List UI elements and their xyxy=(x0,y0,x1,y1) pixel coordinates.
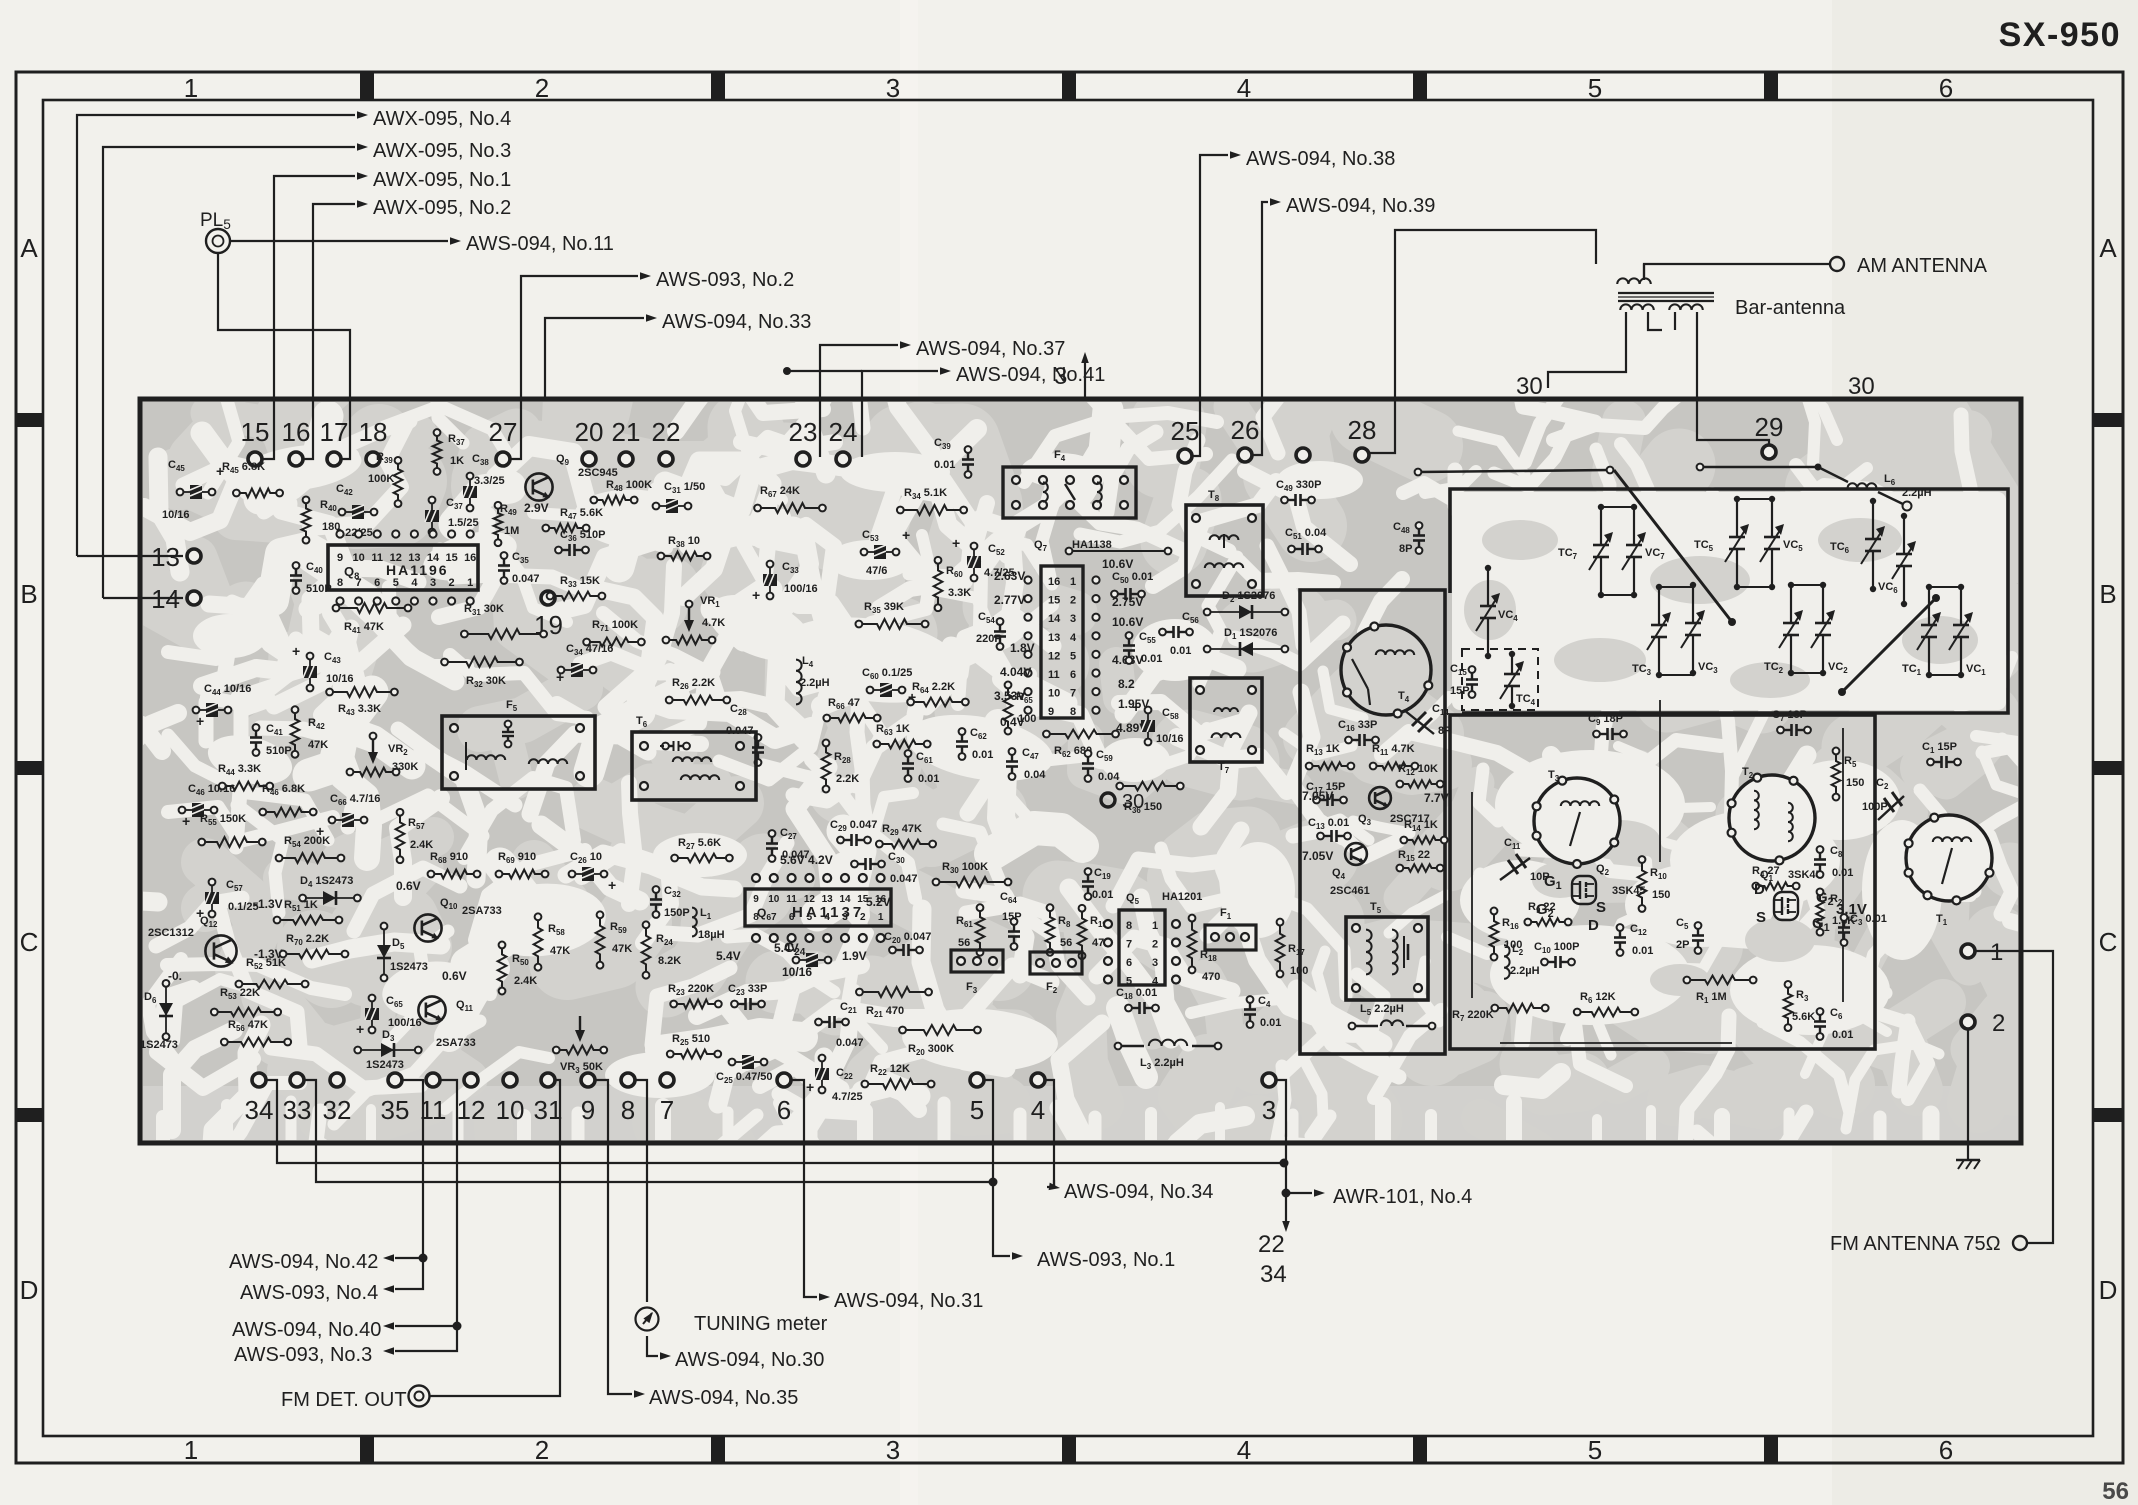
svg-text:AWS-093, No.1: AWS-093, No.1 xyxy=(1037,1249,1175,1271)
svg-text:AWX-095, No.4: AWX-095, No.4 xyxy=(373,108,511,130)
svg-text:35: 35 xyxy=(381,1095,410,1125)
resistor R29 xyxy=(876,823,936,848)
capacitor C60 xyxy=(862,667,916,705)
capacitor C37 xyxy=(425,497,479,536)
svg-text:D: D xyxy=(2099,1275,2118,1305)
transformer T8 xyxy=(1186,489,1263,596)
svg-text:1: 1 xyxy=(1070,576,1076,588)
svg-text:6: 6 xyxy=(1939,73,1953,103)
svg-text:9: 9 xyxy=(337,552,343,564)
resistor R9 xyxy=(1524,901,1571,926)
capacitor C34 xyxy=(556,643,613,685)
svg-text:R44 3.3K: R44 3.3K xyxy=(218,763,261,777)
svg-text:2: 2 xyxy=(1070,595,1076,607)
resistor R60 xyxy=(934,557,972,611)
svg-text:R67 24K: R67 24K xyxy=(760,485,800,499)
svg-text:-1.3V: -1.3V xyxy=(254,897,283,911)
svg-text:1: 1 xyxy=(467,577,473,589)
AM antenna terminal and label xyxy=(1644,255,1988,280)
svg-text:18: 18 xyxy=(359,417,388,447)
svg-text:5.2V: 5.2V xyxy=(866,895,891,909)
svg-text:C60 0.1/25: C60 0.1/25 xyxy=(862,667,912,681)
svg-text:+: + xyxy=(292,643,300,659)
svg-text:4: 4 xyxy=(1152,976,1159,988)
callout AWS-094 No.31 with leader xyxy=(791,1080,983,1312)
pin 18 (board edge) xyxy=(359,417,388,466)
svg-text:7.05V: 7.05V xyxy=(1302,849,1333,863)
resistor R14 xyxy=(1400,819,1447,844)
svg-text:5: 5 xyxy=(1126,976,1132,988)
resistor R52 xyxy=(235,957,308,988)
pin 28 (board edge) xyxy=(1348,415,1377,462)
callout AWS-093 No.2 with leader xyxy=(510,269,794,459)
svg-text:R66 47: R66 47 xyxy=(828,697,860,711)
svg-text:9: 9 xyxy=(753,894,759,905)
svg-text:2: 2 xyxy=(1152,939,1158,951)
capacitor C56 xyxy=(1159,611,1199,657)
resistor R19 xyxy=(1078,905,1111,959)
svg-text:8: 8 xyxy=(621,1095,635,1125)
svg-text:10: 10 xyxy=(768,894,780,905)
capacitor C14 xyxy=(1404,703,1451,737)
pads 13 / 14 xyxy=(151,542,201,614)
potentiometer VR1 xyxy=(663,595,726,644)
resistor R66 xyxy=(823,697,880,722)
callout AWS-094 No.33 with leader xyxy=(545,311,811,399)
svg-text:4: 4 xyxy=(1237,73,1251,103)
capacitor C22 xyxy=(806,1055,863,1103)
capacitor C38 xyxy=(463,453,505,511)
svg-text:10/16: 10/16 xyxy=(162,509,190,521)
pad 30 (on board) xyxy=(1101,791,1144,813)
svg-text:2SA733: 2SA733 xyxy=(436,1037,476,1049)
capacitor C25 xyxy=(716,1055,773,1085)
IC Q8 HA1196 xyxy=(328,530,478,604)
resistor R8 xyxy=(1046,904,1073,955)
box around tuning capacitors xyxy=(1450,489,2008,713)
inductor L4 xyxy=(796,655,830,704)
svg-text:R21 470: R21 470 xyxy=(866,1005,904,1019)
diode D5 xyxy=(377,923,428,982)
trimmer capacitor VC1 xyxy=(1949,584,1986,678)
svg-text:2: 2 xyxy=(535,1435,549,1465)
svg-text:2.2µH: 2.2µH xyxy=(800,677,830,689)
transformer T6 xyxy=(632,715,756,800)
ruler tick marks xyxy=(360,72,374,100)
svg-text:R1 1M: R1 1M xyxy=(1696,991,1727,1005)
svg-text:+: + xyxy=(752,587,760,603)
svg-text:S: S xyxy=(1756,909,1766,926)
svg-text:10.6V: 10.6V xyxy=(1102,557,1133,571)
resistor R40 xyxy=(302,496,341,543)
filter F1 xyxy=(1205,907,1256,950)
resistor R70 xyxy=(280,933,349,958)
svg-text:C51 0.04: C51 0.04 xyxy=(1285,527,1327,541)
node 3 label with arrow xyxy=(1054,352,1089,398)
svg-text:16: 16 xyxy=(464,552,476,564)
pin 8 (board edge) xyxy=(621,1073,635,1125)
svg-text:8P: 8P xyxy=(1399,543,1412,555)
capacitor C15 xyxy=(1450,663,1478,698)
svg-text:C34 47/16: C34 47/16 xyxy=(566,643,613,657)
svg-text:AWX-095, No.2: AWX-095, No.2 xyxy=(373,197,511,219)
svg-text:AWS-094, No.40: AWS-094, No.40 xyxy=(232,1319,381,1341)
svg-text:2: 2 xyxy=(535,73,549,103)
callout AWS-094 No.34 with leader xyxy=(1045,1080,1213,1203)
svg-text:7: 7 xyxy=(660,1095,674,1125)
capacitor C19 xyxy=(1082,867,1113,901)
resistor R7 xyxy=(1452,1004,1549,1023)
capacitor C44 xyxy=(193,683,252,729)
wire (diagonal pointer right) xyxy=(1842,598,1936,692)
svg-text:47K: 47K xyxy=(550,945,570,957)
svg-text:25: 25 xyxy=(1171,416,1200,446)
svg-text:C66 4.7/16: C66 4.7/16 xyxy=(330,793,380,807)
callout AWS-094 No.41 with leader xyxy=(783,364,1105,457)
FM antenna terminal and label xyxy=(1830,951,2053,1255)
svg-text:C: C xyxy=(2099,927,2118,957)
resistor R47 xyxy=(542,507,603,532)
svg-text:C1 15P: C1 15P xyxy=(1922,741,1957,755)
svg-text:7: 7 xyxy=(1126,939,1132,951)
pin 25 (board edge) xyxy=(1171,416,1200,463)
transistor Q9 xyxy=(524,453,618,515)
inductor L1 xyxy=(692,907,725,941)
capacitor C5 xyxy=(1676,917,1704,954)
trimmer capacitor TC3 xyxy=(1632,584,1671,678)
svg-text:FM ANTENNA 75Ω: FM ANTENNA 75Ω xyxy=(1830,1233,2001,1255)
bar antenna drawing xyxy=(1370,230,1846,453)
svg-text:8.2: 8.2 xyxy=(1118,677,1135,691)
svg-text:D: D xyxy=(20,1275,39,1305)
resistor R43 xyxy=(326,687,398,717)
svg-text:TUNING meter: TUNING meter xyxy=(694,1313,828,1335)
svg-text:+: + xyxy=(196,713,204,729)
svg-text:4: 4 xyxy=(1031,1095,1045,1125)
svg-text:12: 12 xyxy=(457,1095,486,1125)
pin 27 (board edge) xyxy=(489,417,518,466)
capacitor C32 xyxy=(650,885,690,919)
svg-text:AWS-094, No.11: AWS-094, No.11 xyxy=(466,233,614,255)
svg-text:0.01: 0.01 xyxy=(934,459,955,471)
svg-text:C3 0.01: C3 0.01 xyxy=(1850,913,1887,927)
resistor R10 xyxy=(1638,856,1671,912)
svg-text:11: 11 xyxy=(371,552,383,564)
svg-text:0.01: 0.01 xyxy=(1141,653,1162,665)
svg-text:12: 12 xyxy=(1048,650,1060,662)
callout AWX-095 No.1 with leader xyxy=(262,169,511,459)
svg-text:150: 150 xyxy=(1652,889,1670,901)
svg-text:56: 56 xyxy=(2102,1478,2129,1505)
svg-text:24: 24 xyxy=(829,417,858,447)
svg-text:22: 22 xyxy=(1258,1231,1285,1258)
resistor R27 xyxy=(671,837,733,862)
capacitor C7 xyxy=(1772,709,1811,736)
svg-text:10: 10 xyxy=(1048,688,1060,700)
resistor R58 xyxy=(534,913,571,970)
svg-text:330K: 330K xyxy=(392,761,418,773)
pin 16 (board edge) xyxy=(282,417,311,466)
svg-text:R70 2.2K: R70 2.2K xyxy=(286,933,329,947)
svg-text:D: D xyxy=(1588,917,1599,934)
capacitor C62 xyxy=(956,727,993,761)
wire (Q7 output bus) xyxy=(1066,548,1172,555)
svg-text:AWS-093, No.3: AWS-093, No.3 xyxy=(234,1344,372,1366)
pad (unlabeled, top edge) xyxy=(1296,448,1310,462)
resistor R32 xyxy=(441,657,523,689)
TUNING meter symbol and label xyxy=(636,1308,828,1336)
pin 32 (board edge) xyxy=(323,1073,352,1125)
svg-text:+: + xyxy=(356,1021,364,1037)
resistor R11 xyxy=(1370,743,1419,770)
potentiometer VR2 xyxy=(347,733,419,777)
capacitor C28 xyxy=(726,703,764,766)
svg-text:0.01: 0.01 xyxy=(1092,889,1113,901)
svg-text:16: 16 xyxy=(282,417,311,447)
svg-text:AWS-094, No.33: AWS-094, No.33 xyxy=(662,311,811,333)
resistor R18 xyxy=(1188,915,1221,983)
trimmer VC4 xyxy=(1476,565,1518,659)
svg-text:R29 47K: R29 47K xyxy=(882,823,922,837)
capacitor C52 xyxy=(952,535,1015,581)
svg-text:150: 150 xyxy=(1846,777,1864,789)
pin 12 (board edge) xyxy=(457,1073,486,1125)
svg-text:28: 28 xyxy=(1348,415,1377,445)
resistor R20 xyxy=(899,1025,981,1057)
pin 11 (board edge) xyxy=(420,1073,447,1125)
svg-text:3: 3 xyxy=(1152,957,1158,969)
transistor Q2 (3SK45) xyxy=(1536,863,1646,934)
capacitor C24 xyxy=(782,939,867,979)
svg-text:R54 200K: R54 200K xyxy=(284,835,330,849)
inductor L3 xyxy=(1115,1040,1222,1071)
svg-text:C29 0.047: C29 0.047 xyxy=(830,819,877,833)
resistor R68 xyxy=(428,851,481,878)
svg-text:AWS-094, No.41: AWS-094, No.41 xyxy=(956,364,1105,386)
pin 26 (board edge) xyxy=(1231,415,1260,462)
svg-text:7.7V: 7.7V xyxy=(1424,791,1449,805)
resistor R25 xyxy=(667,1033,721,1058)
pin 23 (board edge) xyxy=(789,417,818,466)
svg-text:C26 10: C26 10 xyxy=(570,851,602,865)
transformer T1 xyxy=(1905,814,1994,927)
capacitor C31 xyxy=(653,481,706,513)
svg-text:5: 5 xyxy=(1588,73,1602,103)
svg-text:C9 18P: C9 18P xyxy=(1588,713,1623,727)
svg-text:C44 10/16: C44 10/16 xyxy=(204,683,251,697)
svg-text:18µH: 18µH xyxy=(698,929,725,941)
svg-text:R23 220K: R23 220K xyxy=(668,983,714,997)
resistor R71 xyxy=(583,619,645,646)
svg-text:R36 150: R36 150 xyxy=(1124,801,1162,815)
svg-text:B: B xyxy=(2099,579,2116,609)
svg-text:4: 4 xyxy=(1237,1435,1251,1465)
transistor Q11 xyxy=(418,969,475,1049)
svg-text:3: 3 xyxy=(886,1435,900,1465)
ground symbol xyxy=(1956,1030,1980,1169)
svg-text:R25 510: R25 510 xyxy=(672,1033,710,1047)
svg-text:1.9V: 1.9V xyxy=(842,949,867,963)
resistor R16 xyxy=(1490,908,1523,961)
svg-text:8P: 8P xyxy=(1438,725,1451,737)
svg-text:2.2µH: 2.2µH xyxy=(1510,965,1540,977)
svg-text:R71 100K: R71 100K xyxy=(592,619,638,633)
svg-text:AWS-094, No.42: AWS-094, No.42 xyxy=(229,1251,378,1273)
svg-text:21: 21 xyxy=(612,417,641,447)
svg-text:8: 8 xyxy=(1126,920,1132,932)
svg-text:R38 10: R38 10 xyxy=(668,535,700,549)
svg-text:6: 6 xyxy=(1939,1435,1953,1465)
callout AWS-094 No.35 with leader xyxy=(595,1080,798,1409)
capacitor C26 xyxy=(569,851,617,893)
svg-text:C10 100P: C10 100P xyxy=(1534,941,1580,955)
filter F4 xyxy=(1003,449,1136,518)
svg-text:100K: 100K xyxy=(368,473,394,485)
svg-text:22: 22 xyxy=(652,417,681,447)
svg-text:R32 30K: R32 30K xyxy=(466,675,506,689)
trimmer capacitor VC2 xyxy=(1811,582,1848,676)
svg-text:0.6V: 0.6V xyxy=(442,969,467,983)
svg-text:29: 29 xyxy=(1755,412,1784,442)
resistor R1 xyxy=(1683,976,1756,1005)
svg-text:R53 22K: R53 22K xyxy=(220,987,260,1001)
svg-text:2.4K: 2.4K xyxy=(410,839,433,851)
capacitor C61 xyxy=(902,750,939,785)
svg-text:AWS-093, No.2: AWS-093, No.2 xyxy=(656,269,794,291)
transformer T3 xyxy=(1533,769,1620,868)
svg-text:0.01: 0.01 xyxy=(1632,945,1653,957)
pin 9 (board edge) xyxy=(581,1073,595,1125)
capacitor C10 xyxy=(1534,941,1580,968)
filter F2 xyxy=(1030,952,1082,995)
resistor R35 xyxy=(855,601,928,629)
svg-text:R34 5.1K: R34 5.1K xyxy=(904,487,947,501)
wire to L6 xyxy=(1700,466,1818,469)
svg-text:0.04: 0.04 xyxy=(1098,771,1120,783)
trimmer capacitor TC5 xyxy=(1694,496,1749,590)
svg-text:1.8V: 1.8V xyxy=(1010,641,1035,655)
svg-text:R47 5.6K: R47 5.6K xyxy=(560,507,603,521)
transistor Q4 xyxy=(1302,843,1370,897)
resistor R28 xyxy=(822,740,860,793)
svg-text:1S2473: 1S2473 xyxy=(366,1059,404,1071)
svg-text:R35 39K: R35 39K xyxy=(864,601,904,615)
capacitor C59 xyxy=(1082,749,1120,783)
potentiometer VR3 xyxy=(553,1016,607,1075)
svg-text:AWS-094, No.30: AWS-094, No.30 xyxy=(675,1349,824,1371)
capacitor C43 xyxy=(292,643,354,691)
resistor R69 xyxy=(496,851,549,878)
svg-text:S: S xyxy=(1596,899,1606,916)
leader from pin 34 (long bus) xyxy=(266,1080,1289,1168)
trimmer capacitor VC3 xyxy=(1681,582,1718,676)
transistor Q12 xyxy=(148,897,283,983)
diode D2 xyxy=(1204,590,1289,619)
resistor R13 xyxy=(1306,743,1355,770)
svg-text:R68 910: R68 910 xyxy=(430,851,468,865)
diode D1 xyxy=(1204,627,1289,656)
svg-text:150P: 150P xyxy=(664,907,690,919)
svg-text:15P: 15P xyxy=(1450,685,1470,697)
svg-text:R14 1K: R14 1K xyxy=(1404,819,1438,833)
svg-text:16: 16 xyxy=(1048,576,1060,588)
IC Q6 HA1137 xyxy=(716,874,891,963)
svg-text:8: 8 xyxy=(1070,706,1076,718)
trimmer capacitor TC7 xyxy=(1558,504,1613,598)
svg-text:2.77V: 2.77V xyxy=(994,593,1025,607)
svg-text:A: A xyxy=(20,233,38,263)
box around FM front-end section xyxy=(1450,715,1875,1049)
svg-text:5.6K: 5.6K xyxy=(1792,1011,1815,1023)
pin 6 (board edge) xyxy=(777,1073,791,1125)
svg-text:10: 10 xyxy=(352,552,364,564)
svg-text:C23 33P: C23 33P xyxy=(728,983,767,997)
svg-text:0.01: 0.01 xyxy=(1832,867,1853,879)
resistor R67 xyxy=(754,485,826,513)
trimmer capacitor VC6 xyxy=(1878,513,1916,607)
capacitor C53 xyxy=(861,527,911,577)
resistor R17 xyxy=(1276,919,1309,978)
svg-text:4.04V: 4.04V xyxy=(1000,665,1031,679)
svg-text:R55 150K: R55 150K xyxy=(200,813,246,827)
svg-text:2.4K: 2.4K xyxy=(514,975,537,987)
svg-text:C20 0.047: C20 0.047 xyxy=(884,931,931,945)
svg-text:C50 0.01: C50 0.01 xyxy=(1112,571,1153,585)
svg-text:10/16: 10/16 xyxy=(326,673,354,685)
svg-text:5.4V: 5.4V xyxy=(716,949,741,963)
svg-text:100/16: 100/16 xyxy=(784,583,818,595)
svg-text:HA1196: HA1196 xyxy=(386,562,449,578)
svg-text:34: 34 xyxy=(245,1095,274,1125)
capacitor C64 xyxy=(1000,891,1022,950)
pilot lamp PL5 and callout AWS-094 No.11 xyxy=(200,210,614,459)
resistor R15 xyxy=(1396,849,1443,872)
svg-text:5: 5 xyxy=(1070,650,1076,662)
svg-text:6: 6 xyxy=(374,577,380,589)
svg-text:9: 9 xyxy=(1048,706,1054,718)
svg-text:5.6V 4.2V: 5.6V 4.2V xyxy=(780,853,833,867)
svg-text:C7 18P: C7 18P xyxy=(1772,709,1807,723)
svg-text:15: 15 xyxy=(241,417,270,447)
svg-text:31: 31 xyxy=(534,1095,563,1125)
IC Q7 HA1138 xyxy=(994,539,1149,735)
capacitor C20 xyxy=(884,931,931,956)
svg-text:C31 1/50: C31 1/50 xyxy=(664,481,705,495)
svg-text:6: 6 xyxy=(1126,957,1132,969)
svg-text:AWX-095, No.3: AWX-095, No.3 xyxy=(373,140,511,162)
pin 1 (board edge) xyxy=(1961,939,2003,966)
resistor R6 xyxy=(1574,991,1638,1016)
callout AWS-094 No.39 with leader xyxy=(1252,195,1435,455)
svg-text:47K: 47K xyxy=(308,739,328,751)
svg-text:C16 33P: C16 33P xyxy=(1338,719,1377,733)
svg-text:R22 12K: R22 12K xyxy=(870,1063,910,1077)
resistor R39 xyxy=(368,451,402,507)
resistor R5 xyxy=(1832,748,1865,801)
svg-text:30: 30 xyxy=(1516,373,1543,400)
svg-text:220P: 220P xyxy=(976,633,1002,645)
svg-text:5: 5 xyxy=(970,1095,984,1125)
svg-text:R41 47K: R41 47K xyxy=(344,621,384,635)
resistor R57 xyxy=(396,809,434,863)
capacitor C8 xyxy=(1814,845,1853,879)
callout AWX-095 No.4 with leader xyxy=(77,108,511,556)
svg-text:R31 30K: R31 30K xyxy=(464,603,504,617)
capacitor C9 xyxy=(1588,713,1627,740)
resistor R34 xyxy=(897,487,967,515)
svg-text:2SC1312: 2SC1312 xyxy=(148,927,194,939)
svg-text:1K: 1K xyxy=(450,455,464,467)
